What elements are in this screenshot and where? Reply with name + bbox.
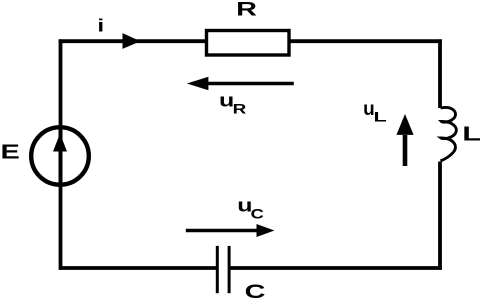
svg-text:i: i xyxy=(97,16,104,36)
svg-text:R: R xyxy=(233,101,247,117)
svg-text:L: L xyxy=(462,122,480,145)
svg-text:E: E xyxy=(1,141,20,163)
svg-text:C: C xyxy=(251,206,264,222)
svg-text:L: L xyxy=(374,108,387,124)
svg-text:R: R xyxy=(236,0,257,20)
svg-text:C: C xyxy=(245,281,266,302)
